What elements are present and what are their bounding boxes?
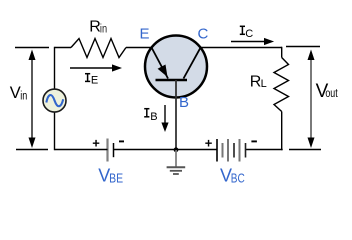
svg-text:C: C	[198, 26, 209, 43]
junction base node	[174, 147, 179, 152]
wire VBE to ground junction	[114, 149, 177, 151]
battery VBC	[217, 139, 246, 162]
wire bottom rail left	[55, 149, 108, 151]
label IC	[240, 26, 245, 34]
svg-text:+: +	[92, 136, 100, 151]
wire base lead	[175, 80, 177, 150]
wire top rail left segment	[55, 47, 72, 49]
svg-text:C: C	[245, 28, 253, 40]
wire collector to right corner	[201, 47, 283, 49]
resistor RL	[274, 58, 289, 112]
ground	[167, 150, 186, 174]
svg-text:E: E	[91, 75, 98, 87]
label IE	[85, 74, 90, 82]
current arrow IB	[161, 105, 168, 132]
label VBE minus	[119, 140, 124, 142]
Vin measurement arrow	[29, 50, 36, 149]
transistor Q1	[145, 36, 207, 98]
svg-text:+: +	[205, 136, 213, 151]
battery VBE	[108, 139, 114, 162]
wire left rail top	[54, 47, 56, 90]
wire bottom rail right	[246, 149, 283, 151]
svg-text:in: in	[20, 91, 27, 103]
svg-text:B: B	[150, 111, 157, 123]
current arrow IC	[231, 38, 274, 45]
Vout measurement arrow	[308, 50, 315, 149]
wire RL bottom lead	[281, 112, 283, 151]
svg-text:L: L	[261, 78, 267, 90]
wire left rail bottom	[54, 112, 56, 150]
resistor Rin	[71, 39, 126, 58]
Vout measurement ticks	[286, 47, 321, 150]
wire ground junction to battery VBC	[176, 149, 217, 151]
current arrow IE	[70, 64, 122, 71]
wire resistor to emitter	[126, 47, 152, 49]
svg-text:in: in	[100, 24, 107, 36]
svg-text:BE: BE	[109, 172, 123, 186]
svg-text:BC: BC	[231, 172, 245, 186]
svg-text:E: E	[140, 26, 150, 43]
wire right vertical top lead	[281, 47, 283, 58]
svg-text:B: B	[179, 94, 189, 111]
source V1 AC	[43, 89, 66, 112]
Vin measurement ticks	[15, 48, 49, 150]
svg-text:V: V	[10, 84, 21, 102]
label VBC minus	[251, 140, 257, 142]
label IB	[144, 109, 149, 117]
svg-text:out: out	[325, 88, 338, 100]
